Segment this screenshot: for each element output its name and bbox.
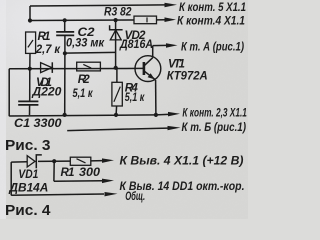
svg-text:К конт. 2,3 Х1.1: К конт. 2,3 Х1.1 — [182, 106, 247, 119]
wire: bottom rail — [9, 115, 156, 116]
arrow to К конт.5 X1.1 — [165, 3, 178, 8]
svg-text:К конт. 5 Х1.1: К конт. 5 Х1.1 — [179, 1, 246, 14]
resistor R2 — [77, 62, 101, 71]
zener diode VD2 — [115, 20, 117, 68]
node: junction VD2 anode on W4 — [114, 66, 118, 70]
resistor R3 — [134, 16, 157, 24]
wire: R1 bottom lead — [29, 53, 31, 68]
svg-text:К т. Б (рис.1): К т. Б (рис.1) — [182, 121, 247, 134]
node: emitter on bottom rail — [154, 113, 158, 117]
wire: rail W2 — [30, 19, 134, 22]
resistor R1 — [26, 32, 36, 53]
zener diode VD1 (fig.4) — [27, 156, 35, 167]
wire: riser from W2 to W1 — [29, 6, 31, 21]
capacitor C2 — [64, 20, 66, 31]
svg-text:300: 300 — [79, 166, 101, 179]
arrow to К конт.2,3 X1.1 — [156, 113, 168, 116]
wire/arrow to К т.Б — [67, 128, 167, 131]
capacitor C1 — [29, 69, 31, 101]
wire/arrow to К Выв.14 — [54, 180, 103, 183]
svg-text:Д220: Д220 — [31, 86, 62, 99]
wire: fig4 top — [11, 161, 27, 163]
resistor R4 — [116, 68, 118, 82]
node: C2-drop on bottom rail — [63, 113, 67, 117]
wire/arrow to К Выв.4 — [91, 160, 103, 162]
wire: R3 to arrow — [157, 19, 167, 21]
wire W3: C2 bottom to VD2 anode lead — [65, 51, 116, 54]
svg-text:К т. А (рис.1): К т. А (рис.1) — [181, 41, 244, 54]
wire: top rail W1 — [30, 5, 165, 6]
svg-text:R1: R1 — [38, 30, 51, 43]
node: junction C2 top on W2 — [63, 18, 67, 22]
svg-text:R3 82: R3 82 — [104, 6, 132, 19]
svg-text:С1 3300: С1 3300 — [14, 117, 62, 130]
node: junction on fig4 top wire — [52, 159, 56, 163]
node: C2 bottom junction — [63, 51, 67, 55]
wire: diode to R1 — [38, 160, 70, 162]
wire/arrow to Общ. — [11, 194, 104, 195]
wire W4: base wire — [9, 67, 143, 69]
svg-text:R2: R2 — [78, 73, 91, 86]
svg-text:5,1 к: 5,1 к — [125, 91, 145, 104]
svg-text:2,7 к: 2,7 к — [35, 43, 61, 56]
svg-text:К Выв. 4 Х1.1 (+12 В): К Выв. 4 Х1.1 (+12 В) — [120, 154, 244, 167]
resistor R1 (fig.4) — [70, 157, 91, 165]
node: junction W1/riser/R1 top — [28, 18, 32, 22]
wire: drop from junction — [53, 161, 55, 181]
wire: fig4 left vertical — [10, 162, 12, 195]
svg-text:5,1 к: 5,1 к — [73, 87, 94, 100]
svg-text:Д816А: Д816А — [119, 38, 153, 51]
svg-text:ДВ14А: ДВ14А — [8, 181, 48, 194]
svg-text:R1: R1 — [61, 166, 75, 179]
node: junction VD2 top on W2 — [114, 18, 118, 22]
svg-text:Общ.: Общ. — [125, 190, 145, 203]
node: junction R1 bottom / C1 top — [28, 67, 32, 71]
svg-text:К конт.4 Х1.1: К конт.4 Х1.1 — [177, 15, 245, 28]
wire: drop from C2 junction to bottom rail — [64, 53, 66, 115]
svg-text:КТ972А: КТ972А — [167, 69, 208, 82]
transistor VT1 — [135, 56, 161, 82]
node: R4 bottom on bottom rail — [114, 113, 118, 117]
svg-text:0,33 мк: 0,33 мк — [66, 36, 105, 49]
wire: emitter down — [155, 80, 157, 115]
wire: collector up — [152, 46, 154, 58]
svg-text:Рис. 3: Рис. 3 — [5, 137, 51, 154]
svg-text:Рис. 4: Рис. 4 — [5, 202, 51, 219]
wire/arrow to К т.А — [153, 44, 167, 46]
arrow to К конт.4 X1.1 — [165, 17, 177, 22]
wire: left rail — [8, 69, 10, 116]
diode VD1 (fig.3) — [41, 63, 52, 73]
svg-text:VD1: VD1 — [18, 168, 38, 181]
